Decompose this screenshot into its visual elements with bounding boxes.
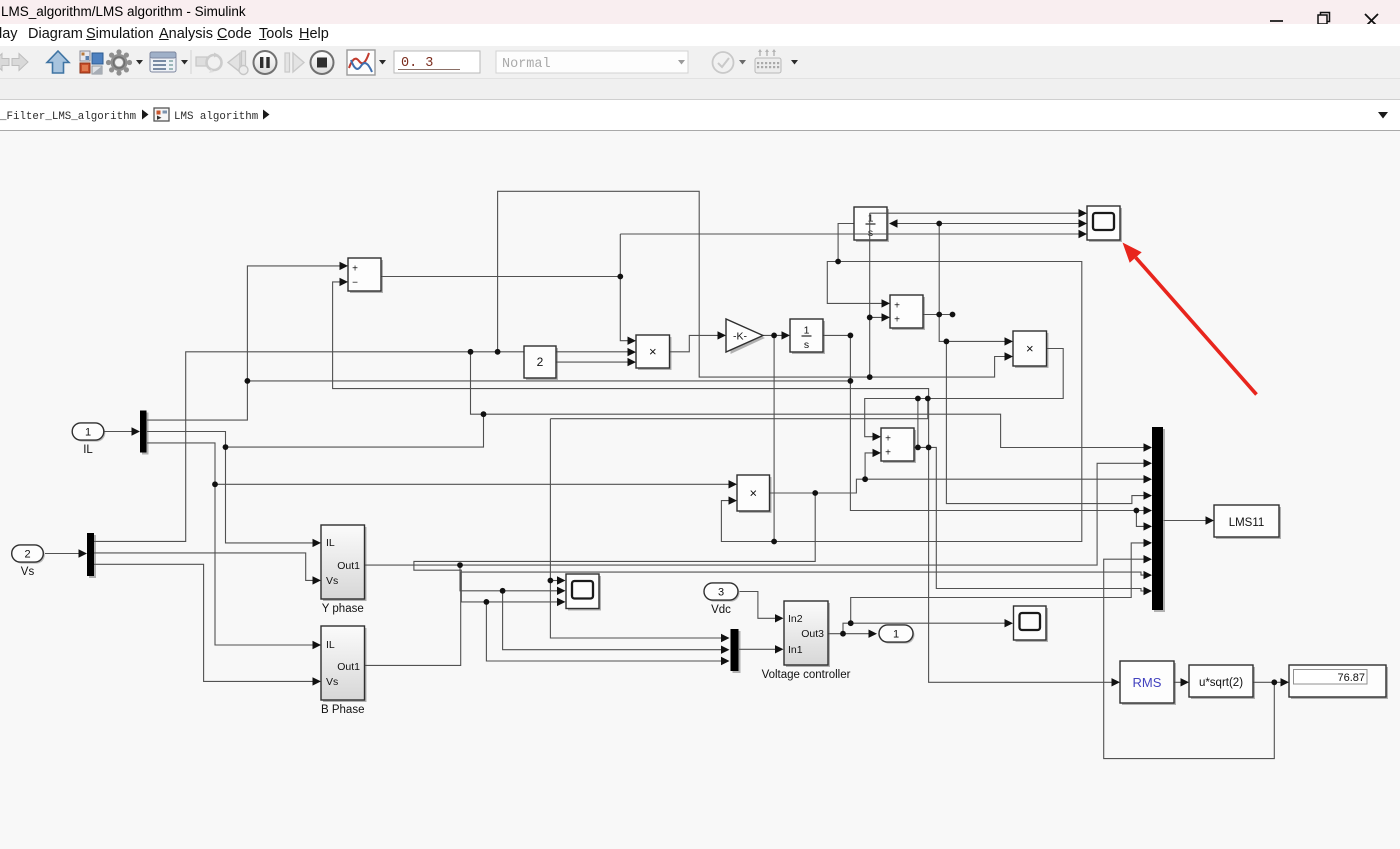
svg-text:IL: IL <box>83 444 93 456</box>
svg-text:+: + <box>885 448 891 459</box>
svg-text:RMS: RMS <box>1133 675 1162 690</box>
svg-text:+: + <box>894 315 900 326</box>
svg-text:1: 1 <box>893 629 899 641</box>
svg-text:×: × <box>1026 341 1034 356</box>
svg-text:u*sqrt(2): u*sqrt(2) <box>1199 677 1243 689</box>
svg-text:×: × <box>649 344 657 359</box>
svg-text:Y phase: Y phase <box>322 603 364 615</box>
svg-text:In1: In1 <box>788 644 803 656</box>
svg-text:In2: In2 <box>788 613 803 625</box>
svg-text:−: − <box>352 278 358 289</box>
svg-text:Out3: Out3 <box>801 628 824 640</box>
svg-text:s: s <box>804 339 809 351</box>
svg-text:1: 1 <box>804 325 810 337</box>
svg-text:×: × <box>749 486 757 501</box>
svg-text:LMS algorithm: LMS algorithm <box>174 111 258 123</box>
svg-text:Vdc: Vdc <box>711 604 731 616</box>
svg-text:+: + <box>885 434 891 445</box>
svg-text:Vs: Vs <box>326 575 338 587</box>
svg-text:76.87: 76.87 <box>1337 672 1365 684</box>
svg-text:Vs: Vs <box>21 566 35 578</box>
svg-text:B Phase: B Phase <box>321 704 364 716</box>
svg-text:IL: IL <box>326 537 335 549</box>
svg-text:3: 3 <box>718 587 724 599</box>
svg-text:s: s <box>868 227 873 239</box>
svg-text:Voltage controller: Voltage controller <box>762 669 851 681</box>
svg-text:1: 1 <box>85 427 91 439</box>
svg-text:2: 2 <box>24 549 30 561</box>
svg-text:IL: IL <box>326 639 335 651</box>
svg-text:+: + <box>352 264 358 275</box>
svg-text:0. 3: 0. 3 <box>401 56 433 71</box>
svg-text:-K-: -K- <box>733 331 748 343</box>
svg-text:1: 1 <box>868 213 874 225</box>
svg-text:Out1: Out1 <box>337 560 360 572</box>
svg-text:Out1: Out1 <box>337 661 360 673</box>
svg-text:Vs: Vs <box>326 676 338 688</box>
svg-text:_Filter_LMS_algorithm: _Filter_LMS_algorithm <box>0 111 136 123</box>
svg-text:+: + <box>894 301 900 312</box>
svg-text:Normal: Normal <box>502 57 551 72</box>
svg-text:2: 2 <box>537 355 544 369</box>
svg-text:LMS11: LMS11 <box>1229 517 1265 529</box>
